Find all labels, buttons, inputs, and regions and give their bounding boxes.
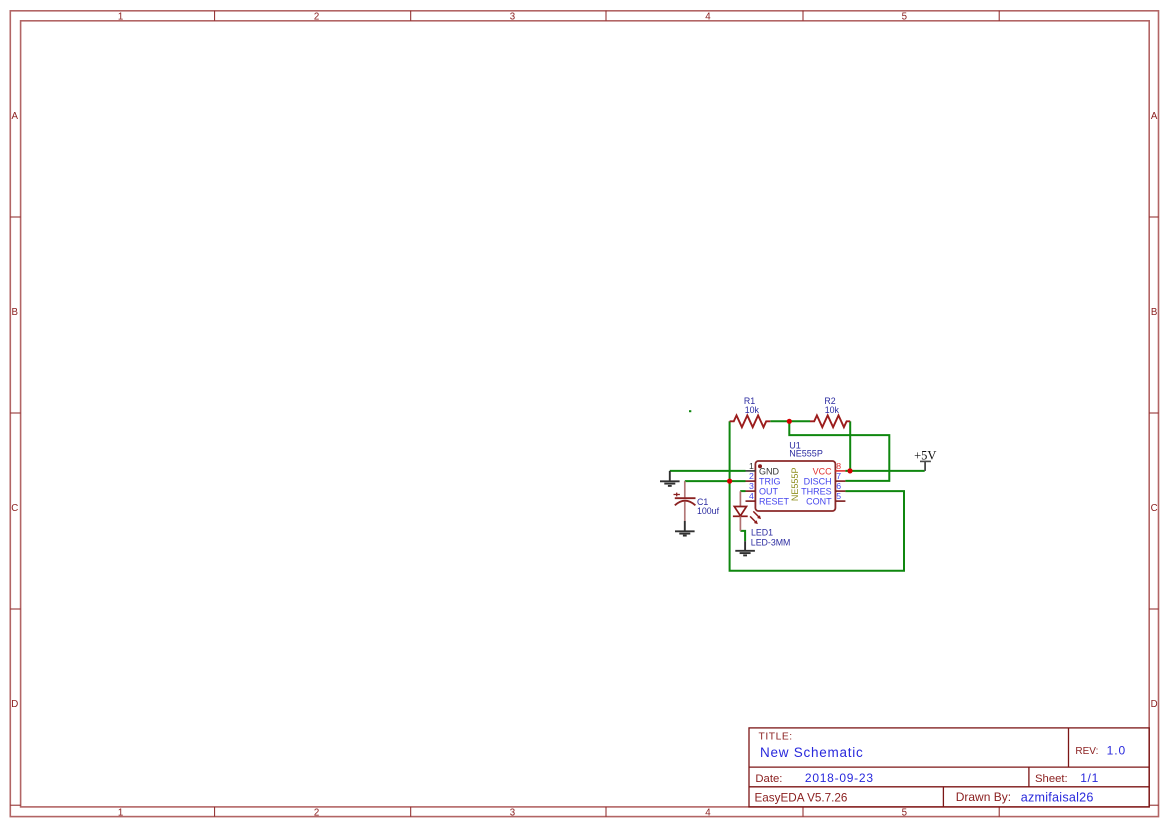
svg-text:EasyEDA V5.7.26: EasyEDA V5.7.26 xyxy=(755,792,848,805)
svg-text:A: A xyxy=(1151,111,1158,122)
svg-text:C: C xyxy=(11,503,18,514)
svg-text:Drawn By:: Drawn By: xyxy=(956,790,1011,804)
svg-text:1: 1 xyxy=(118,808,123,819)
svg-text:GND: GND xyxy=(759,466,780,476)
svg-text:5: 5 xyxy=(836,491,841,501)
svg-text:NE555P: NE555P xyxy=(789,449,823,459)
svg-text:azmifaisal26: azmifaisal26 xyxy=(1021,790,1094,804)
svg-text:CONT: CONT xyxy=(806,497,832,507)
svg-text:REV:: REV: xyxy=(1075,746,1098,757)
svg-text:6: 6 xyxy=(836,481,841,491)
svg-text:D: D xyxy=(11,699,18,710)
svg-text:3: 3 xyxy=(749,481,754,491)
svg-text:5: 5 xyxy=(902,12,907,23)
svg-text:2: 2 xyxy=(314,12,319,23)
svg-text:4: 4 xyxy=(749,491,754,501)
svg-text:VCC: VCC xyxy=(813,466,833,476)
svg-text:Sheet:: Sheet: xyxy=(1035,773,1068,785)
svg-text:LED-3MM: LED-3MM xyxy=(751,538,791,548)
svg-text:1: 1 xyxy=(749,461,754,471)
svg-text:2: 2 xyxy=(314,808,319,819)
svg-text:C: C xyxy=(1151,503,1158,514)
svg-text:New Schematic: New Schematic xyxy=(760,745,864,760)
svg-text:D: D xyxy=(1151,699,1158,710)
svg-text:1: 1 xyxy=(118,12,123,23)
svg-text:RESET: RESET xyxy=(759,497,790,507)
svg-text:NE555P: NE555P xyxy=(790,468,800,502)
svg-text:TRIG: TRIG xyxy=(759,477,781,487)
svg-text:7: 7 xyxy=(836,471,841,481)
svg-text:2: 2 xyxy=(749,471,754,481)
svg-text:THRES: THRES xyxy=(801,487,832,497)
svg-text:Date:: Date: xyxy=(755,773,782,785)
svg-text:B: B xyxy=(1151,307,1157,318)
svg-text:5: 5 xyxy=(902,808,907,819)
svg-text:+5V: +5V xyxy=(914,448,936,462)
svg-text:10k: 10k xyxy=(745,405,760,415)
svg-text:B: B xyxy=(11,307,17,318)
svg-text:A: A xyxy=(11,111,18,122)
svg-text:DISCH: DISCH xyxy=(804,477,832,487)
svg-text:1/1: 1/1 xyxy=(1080,771,1099,785)
svg-text:4: 4 xyxy=(705,12,711,23)
svg-text:4: 4 xyxy=(705,808,711,819)
svg-text:2018-09-23: 2018-09-23 xyxy=(805,771,874,785)
svg-text:100uf: 100uf xyxy=(697,506,720,516)
svg-text:3: 3 xyxy=(510,12,515,23)
svg-text:8: 8 xyxy=(836,461,841,471)
svg-text:1.0: 1.0 xyxy=(1107,743,1127,757)
svg-text:LED1: LED1 xyxy=(751,528,773,538)
svg-text:OUT: OUT xyxy=(759,487,779,497)
svg-text:10k: 10k xyxy=(825,405,840,415)
svg-text:3: 3 xyxy=(510,808,515,819)
svg-text:TITLE:: TITLE: xyxy=(759,731,793,742)
